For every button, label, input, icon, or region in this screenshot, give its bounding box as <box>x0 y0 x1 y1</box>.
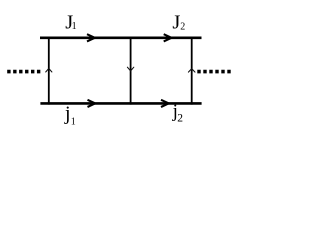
svg-text:2: 2 <box>180 21 185 32</box>
svg-text:j: j <box>64 103 71 125</box>
svg-text:1: 1 <box>71 117 76 128</box>
svg-text:1: 1 <box>72 21 77 32</box>
svg-text:2: 2 <box>177 113 183 125</box>
svg-text:J: J <box>172 12 180 34</box>
